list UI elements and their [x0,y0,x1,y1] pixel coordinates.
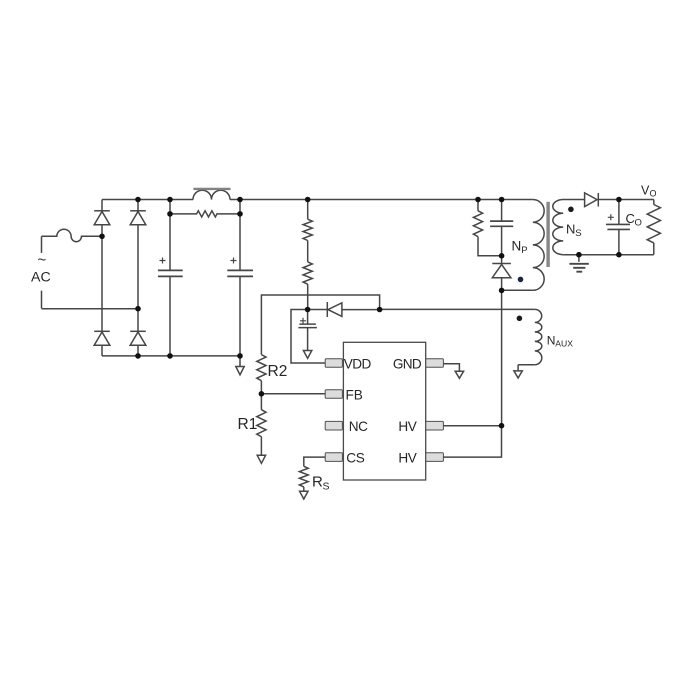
junction: snubber C / primary top [499,197,505,203]
diode D1 [94,211,110,225]
svg-text:O: O [650,189,657,199]
resistor R1 [238,394,267,456]
svg-text:AC: AC [31,270,51,286]
svg-text:C: C [626,211,635,226]
IC U1 [343,342,425,480]
fuse F1 [42,229,103,241]
transformer auxiliary NAUX [517,309,574,371]
diode D2 [130,211,146,225]
transformer core [546,202,549,267]
resistor Rin1 [303,200,312,262]
junction: snubber bottom [499,253,505,259]
junction: C2 bottom / ground tap [237,353,243,359]
AC source V1 [31,236,51,308]
junction: secondary return ground [576,252,582,258]
pin VDD [325,359,342,368]
wire top bus [102,199,533,201]
wire primary bottom to HV [501,290,503,425]
svg-text:R1: R1 [238,416,258,433]
svg-text:R: R [312,474,323,491]
resistor R-filter [170,211,240,217]
wire secondary bottom rail [563,254,654,256]
junction: CO bottom [616,252,622,258]
ground (C-VDD) [303,351,311,359]
svg-text:HV: HV [398,451,416,466]
svg-text:HV: HV [398,419,416,434]
wire FB [261,393,325,395]
svg-text:N: N [566,222,575,237]
svg-text:N: N [512,239,522,254]
node VDD supply [305,307,311,313]
wire CS [304,457,326,466]
capacitor CO [606,200,642,255]
svg-text:CS: CS [346,451,365,466]
node aux rectifier anode [377,307,383,313]
resistor R-load [647,200,660,255]
junction: bridge right leg bottom bus [135,353,141,359]
resistor RS [299,466,329,492]
svg-text:FB: FB [346,387,363,402]
wire bridge right leg [137,200,139,356]
junction: startup divider tap on bus [305,197,311,203]
resistor Rin2 [303,262,312,310]
svg-text:NC: NC [349,419,368,434]
junction: AC return to bridge [135,306,141,312]
resistor R-snubber [473,200,501,256]
capacitor C1 [158,200,183,356]
wire VDD [291,310,325,364]
wire bridge left leg [101,200,103,356]
capacitor C-VDD [298,310,317,351]
junction: AC hot to bridge [99,234,105,240]
diode D3 [94,331,110,345]
wire GND pin [443,364,459,372]
pin HV2 [426,453,444,462]
pin GND [426,359,444,368]
inductor L1 [193,189,231,200]
ground (R1) [257,455,265,463]
wire HV2 [443,426,501,457]
wire aux to vdd [380,308,535,310]
diode D-out [585,193,619,207]
capacitor C2 [227,200,253,356]
junction: filter R left [167,211,173,217]
svg-text:~: ~ [38,252,47,269]
transformer secondary NS [553,200,585,255]
capacitor C-snubber [490,200,513,256]
node primary bottom / drain [499,288,505,294]
transformer primary NP [502,200,545,291]
junction: C1 top [167,197,173,203]
earth ground (secondary) [569,255,588,272]
wire VO [619,199,654,201]
diode D-VDD [308,302,380,317]
junction: HV pins tie [499,423,505,429]
svg-text:O: O [635,217,642,228]
ground (RS) [300,491,308,499]
junction: C1 bottom [167,353,173,359]
wire bottom bus [102,355,240,357]
resistor R2 [257,355,288,394]
wire HV1 [443,425,501,427]
svg-text:VDD: VDD [344,356,372,371]
junction: C2 top [237,197,243,203]
svg-text:GND: GND [393,356,422,371]
svg-text:S: S [575,228,581,239]
wire AC return [42,308,139,310]
junction: snubber R top [475,197,481,203]
pin FB [325,390,342,399]
node VO [616,197,622,203]
ground (IC GND) [455,371,463,378]
wire R2 top link [261,295,379,355]
svg-text:R2: R2 [268,363,288,380]
junction: filter R right [237,211,243,217]
svg-text:P: P [521,245,527,256]
junction: bridge right leg top bus [135,197,141,203]
svg-text:N: N [547,334,556,348]
diode D4 [130,331,146,345]
ground (bottom bus) [236,356,244,375]
pin NC [325,421,342,430]
svg-text:S: S [323,481,330,493]
pin CS [325,453,342,462]
node FB divider [259,391,265,397]
pin HV1 [426,421,444,430]
svg-text:AUX: AUX [555,338,573,348]
ground (NAUX) [514,371,522,378]
diode D-snubber [492,256,511,291]
